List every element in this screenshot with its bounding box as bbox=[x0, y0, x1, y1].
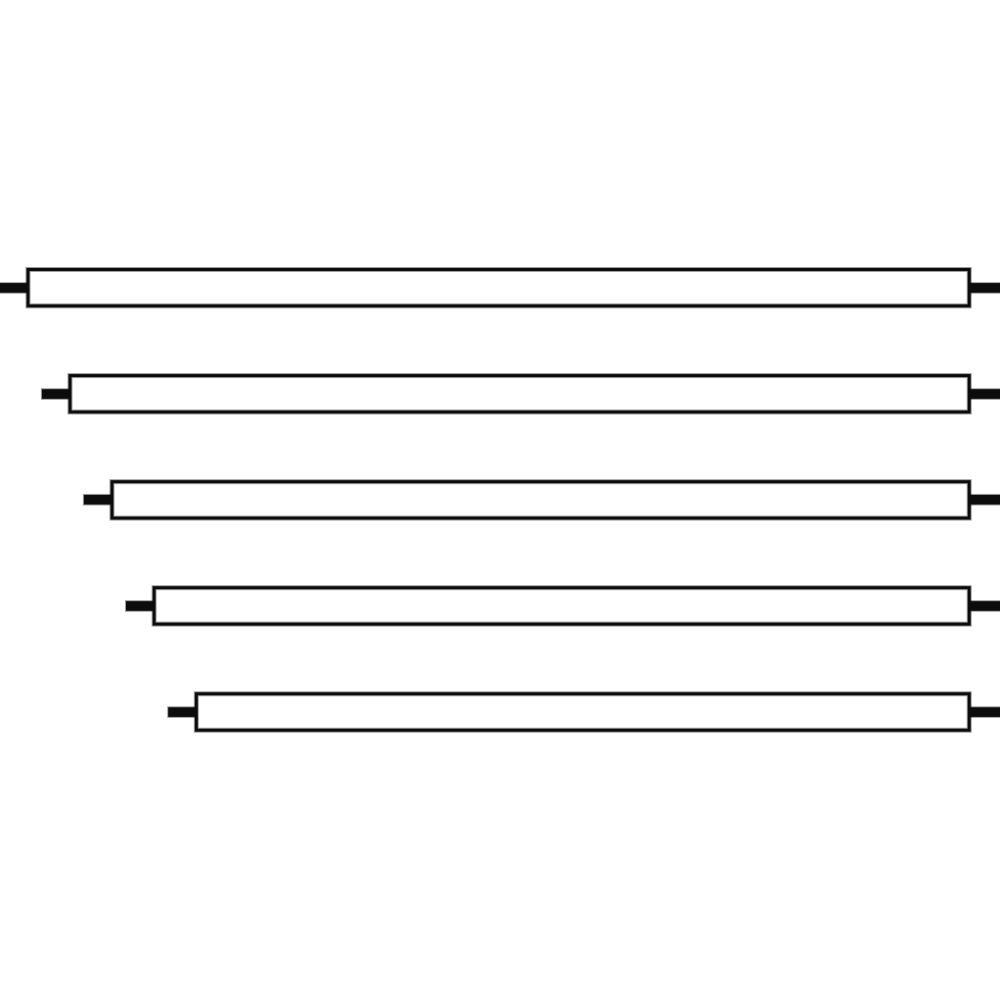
lead left 1 bbox=[0, 282, 30, 294]
lead left 3 bbox=[83, 494, 114, 506]
resistor bar 1 bbox=[28, 270, 969, 306]
lead left 4 bbox=[125, 600, 156, 612]
lead right 4 bbox=[965, 600, 1000, 612]
lead right 5 bbox=[965, 706, 1000, 718]
lead right 2 bbox=[965, 388, 1000, 400]
lead left 2 bbox=[41, 388, 72, 400]
resistor bar 4 bbox=[154, 588, 969, 624]
resistor bar 3 bbox=[112, 482, 969, 518]
lead right 1 bbox=[965, 282, 1000, 294]
lead left 5 bbox=[167, 706, 198, 718]
lead right 3 bbox=[965, 494, 1000, 506]
resistor bar 2 bbox=[70, 376, 969, 412]
resistor bar 5 bbox=[196, 694, 969, 730]
